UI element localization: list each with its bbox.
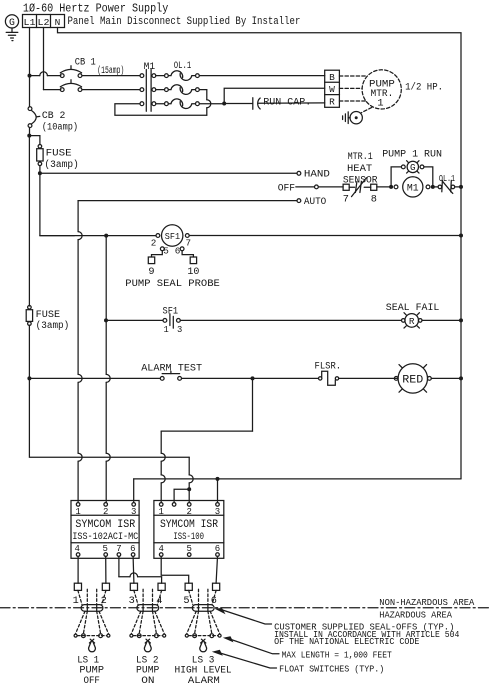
note CUSTOMER SUPPLIED SEAL-OFFS — [274, 623, 459, 648]
node SF1 row junction — [104, 234, 108, 238]
svg-text:FLOAT SWITCHES (TYP.): FLOAT SWITCHES (TYP.) — [279, 665, 384, 675]
field terminal 1 — [73, 583, 82, 607]
svg-text:1: 1 — [75, 507, 80, 517]
svg-text:(3amp): (3amp) — [36, 320, 70, 332]
wire branch to fuse1 — [29, 136, 40, 145]
svg-text:ALARM TEST: ALARM TEST — [141, 363, 202, 375]
wire CB2 to fuse branch — [29, 127, 31, 135]
svg-text:FLSR.: FLSR. — [315, 360, 342, 372]
svg-text:ISS-100: ISS-100 — [173, 532, 204, 543]
run capacitor RUN CAP. — [253, 97, 325, 110]
svg-text:W: W — [329, 84, 335, 95]
node SF1 contact branch — [104, 318, 108, 322]
fuse FUSE (3amp) alarm — [26, 306, 69, 333]
svg-text:M1: M1 — [144, 62, 156, 73]
svg-text:HAZARDOUS AREA: HAZARDOUS AREA — [379, 610, 452, 620]
wire alarm test to flasher — [182, 377, 319, 379]
label LS 1 PUMP OFF — [77, 654, 104, 687]
node G-lamp branch left — [389, 185, 393, 189]
svg-text:Panel Main Disconnect Supplied: Panel Main Disconnect Supplied By Instal… — [68, 16, 301, 28]
label MTR.1 HEAT SENSOR — [343, 152, 378, 186]
svg-text:3: 3 — [215, 507, 220, 517]
svg-text:3: 3 — [131, 507, 136, 517]
terminal 8 — [371, 184, 377, 205]
field terminal 5 — [183, 583, 192, 607]
wire ISR1 pin4 to terminal 1 — [77, 556, 79, 583]
svg-text:OL.1: OL.1 — [174, 61, 192, 72]
svg-text:1: 1 — [377, 97, 383, 109]
wire OL row3 to junction — [200, 103, 223, 105]
contactor coil M1 — [394, 177, 430, 197]
wire ISR1 pin6 to terminal 3 — [132, 556, 135, 583]
dashed motor lead R — [339, 100, 366, 102]
svg-text:7: 7 — [186, 237, 192, 248]
wire L1 rail to ISR feed — [29, 378, 189, 457]
svg-text:N: N — [55, 17, 61, 28]
terminal block B W R — [325, 70, 340, 107]
svg-text:ON: ON — [141, 675, 154, 687]
terminal block L1 L2 N — [23, 15, 65, 29]
wire junction up to terminal W — [224, 88, 325, 103]
svg-text:OFF: OFF — [278, 182, 295, 194]
svg-text:2: 2 — [103, 507, 108, 517]
field terminal 3 — [129, 583, 138, 607]
svg-text:PUMP SEAL PROBE: PUMP SEAL PROBE — [125, 278, 220, 290]
wire L1 to CB1 with hop over L2 — [30, 75, 40, 77]
svg-text:R: R — [329, 96, 335, 107]
svg-text:HEAT: HEAT — [347, 164, 372, 175]
float switch cable cone — [185, 611, 221, 637]
wire ISR1 pin5 to terminal 2 — [105, 556, 107, 583]
svg-text:9: 9 — [148, 266, 154, 278]
svg-text:10: 10 — [187, 266, 199, 278]
overload heaters OL.1 — [156, 61, 200, 109]
wire SF1 relay pin2 vertical — [105, 236, 107, 375]
float switch cable cone — [130, 611, 166, 637]
wire SF1 pin5 to probe terminal 9 — [152, 251, 163, 257]
probe terminal 10 — [187, 257, 199, 278]
svg-text:SYMCOM ISR: SYMCOM ISR — [160, 519, 218, 531]
node ISS-100 branch — [251, 376, 255, 380]
wire RED row to ISS-100 pin1 — [161, 378, 252, 502]
svg-text:5: 5 — [183, 595, 189, 607]
svg-text:G: G — [9, 17, 15, 28]
ground terminal G — [5, 15, 18, 28]
node fuse1 branch — [27, 134, 31, 138]
selector contact AUTO — [78, 196, 326, 208]
jumper ISS-100 pin2 — [174, 487, 191, 502]
node L1-CB1 junction — [28, 74, 32, 78]
wire down to ISS-100 pin3 — [217, 479, 219, 502]
wire CB1 pole2 to M1 — [82, 89, 140, 91]
svg-text:MTR.1: MTR.1 — [348, 152, 373, 163]
svg-text:FUSE: FUSE — [46, 148, 72, 160]
relay module SYMCOM ISR ISS-100 — [154, 501, 224, 559]
float switch cable cone — [74, 611, 110, 637]
node alarm test branch — [27, 376, 31, 380]
svg-text:B: B — [329, 72, 335, 83]
field terminal 6 — [211, 583, 220, 607]
pilot light RED alarm — [394, 364, 461, 393]
svg-text:CB 2: CB 2 — [42, 110, 66, 122]
wire OL row1 to terminal B — [200, 75, 325, 77]
leader arrow max length note — [223, 636, 279, 654]
wire ISR1 pin7 to terminal 4 — [119, 556, 162, 583]
circuit breaker CB2 — [28, 107, 78, 134]
svg-text:2: 2 — [151, 237, 157, 248]
node G-lamp branch right — [431, 185, 435, 189]
svg-text:CB 1: CB 1 — [75, 57, 96, 69]
relay module SYMCOM ISR ISS-102ACI-MC — [71, 501, 139, 559]
svg-text:7: 7 — [343, 194, 349, 206]
svg-text:1/2 HP.: 1/2 HP. — [405, 82, 443, 94]
node seal fail to rail — [459, 318, 463, 322]
float weight — [144, 639, 151, 652]
wire SF1 row to coil — [106, 235, 156, 237]
dashed motor lead W — [339, 87, 362, 89]
probe terminal 9 — [148, 257, 154, 278]
wire ISR2 pin4 to terminal 5 — [161, 556, 189, 583]
dashed motor lead B — [339, 75, 367, 77]
wire L2 vertical drop — [44, 28, 61, 90]
wire N to right rail — [58, 28, 462, 479]
float weight — [200, 639, 207, 652]
seal fail relay SF1 — [151, 225, 191, 257]
seal-off fitting LS2 — [134, 589, 162, 611]
flasher contact FLSR. — [315, 360, 398, 385]
svg-text:SEAL FAIL: SEAL FAIL — [386, 302, 440, 314]
auxiliary contact SF1 — [163, 305, 183, 335]
svg-text:L1: L1 — [24, 17, 36, 28]
wire neutral feed to ISS-100 pin2 — [188, 457, 190, 475]
wire SF1 coil row left — [40, 235, 104, 237]
overload contact OL.1 — [435, 173, 461, 193]
node M1 row to neutral rail — [459, 185, 463, 189]
field terminal 2 — [101, 583, 110, 607]
svg-text:1: 1 — [164, 325, 169, 335]
pushbutton ALARM TEST — [141, 363, 202, 381]
svg-text:OFF: OFF — [84, 675, 100, 687]
wire L1 rail middle — [28, 136, 30, 306]
contactor M1 power contacts — [140, 62, 156, 112]
leader arrow float switches note — [212, 650, 277, 668]
svg-text:1: 1 — [158, 507, 163, 517]
dashed motor frame lead — [361, 107, 372, 113]
wire ISR2 pin6 to terminal 6 — [216, 556, 217, 583]
wire CB1 pole1 to M1 — [82, 75, 140, 77]
svg-text:AUTO: AUTO — [304, 196, 326, 208]
svg-text:3: 3 — [177, 325, 182, 335]
svg-text:3: 3 — [129, 595, 135, 607]
hazardous area boundary line — [0, 607, 489, 609]
svg-text:ALARM: ALARM — [188, 675, 220, 687]
node ISS-100 pin3 branch — [216, 477, 220, 481]
pilot light R SEAL FAIL — [386, 302, 461, 328]
svg-text:M1: M1 — [407, 183, 419, 194]
wire SF1 pin6 to probe terminal 10 — [182, 251, 193, 257]
wire neutral N line to ISR pin3 — [134, 479, 461, 502]
svg-text:8: 8 — [371, 194, 377, 206]
svg-text:OF THE NATIONAL ELECTRIC CODE: OF THE NATIONAL ELECTRIC CODE — [274, 637, 419, 647]
svg-text:PUMP 1 RUN: PUMP 1 RUN — [382, 148, 442, 160]
pump motor PUMP MTR. 1 — [362, 70, 401, 110]
selector contact OFF — [278, 182, 343, 194]
node SF1 coil to rail — [459, 234, 463, 238]
label LS 2 PUMP ON — [136, 654, 159, 687]
fuse FUSE (3amp) control — [37, 145, 79, 172]
svg-text:SF1: SF1 — [165, 231, 181, 242]
svg-text:6: 6 — [175, 246, 181, 257]
wire fuse1 to HAND node — [39, 166, 41, 174]
motor frame ground — [343, 112, 363, 124]
svg-text:(3amp): (3amp) — [44, 159, 78, 171]
terminal 7 — [343, 184, 349, 205]
svg-text:RUN CAP.: RUN CAP. — [263, 97, 311, 109]
label LS 3 HIGH LEVEL ALARM — [175, 654, 232, 687]
svg-text:SYMCOM ISR: SYMCOM ISR — [75, 519, 135, 531]
svg-text:MAX LENGTH = 1,000 FEET: MAX LENGTH = 1,000 FEET — [282, 650, 392, 660]
node run-cap junction — [222, 102, 226, 106]
svg-text:FUSE: FUSE — [36, 309, 61, 321]
svg-text:5: 5 — [163, 246, 169, 257]
svg-text:R: R — [409, 316, 415, 327]
wire HAND row — [40, 172, 297, 174]
svg-text:HAND: HAND — [304, 169, 330, 181]
svg-text:NON-HAZARDOUS AREA: NON-HAZARDOUS AREA — [379, 598, 475, 608]
svg-text:(10amp): (10amp) — [42, 122, 78, 134]
svg-text:1Ø-60 Hertz Power Supply: 1Ø-60 Hertz Power Supply — [23, 1, 168, 15]
circuit breaker CB1 — [60, 57, 124, 92]
node red lamp to rail — [459, 376, 463, 380]
field terminal 4 — [156, 583, 165, 607]
leader arrow seal-offs note — [215, 608, 272, 624]
svg-text:L2: L2 — [38, 17, 50, 28]
wire junction to run capacitor — [224, 103, 252, 105]
wire terminal8 to coil branch — [377, 186, 391, 188]
wire L1 rail lower — [28, 325, 30, 378]
seal-off fitting LS3 — [189, 589, 216, 611]
float weight — [89, 639, 96, 652]
svg-text:2: 2 — [186, 507, 191, 517]
wire SF1 contact row — [106, 319, 163, 321]
selector contact HAND — [297, 169, 330, 181]
wire SF1 coil to neutral rail — [189, 235, 461, 237]
wire SF1 contact to seal fail lamp — [180, 319, 401, 321]
power ground symbol — [6, 28, 18, 41]
node HAND branch — [38, 171, 42, 175]
wire L1 vertical rail top — [29, 28, 31, 107]
wire fuse1 node down to SF1 row — [40, 173, 74, 235]
wire AUTO down to ISR pin1 — [77, 201, 79, 232]
svg-text:RED: RED — [402, 374, 423, 386]
svg-text:G: G — [410, 162, 416, 173]
svg-text:1: 1 — [73, 595, 79, 607]
wire alarm test row left — [29, 377, 160, 379]
thermal sensor contact — [349, 178, 371, 197]
seal-off fitting LS1 — [78, 589, 106, 611]
svg-text:OL.1: OL.1 — [439, 173, 455, 184]
wire OL row2 down and loop back to M1 row3 — [115, 90, 211, 116]
pilot light G PUMP 1 RUN — [382, 148, 442, 187]
svg-text:ISS-102ACI-MC: ISS-102ACI-MC — [72, 532, 138, 543]
